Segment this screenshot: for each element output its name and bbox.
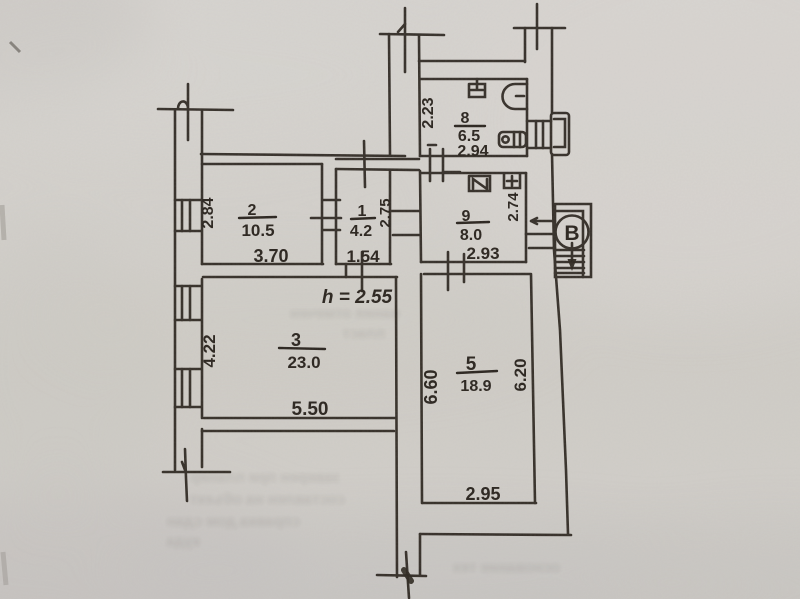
dimension tick above room 1 (364, 141, 365, 187)
corridor right wall upper (551, 28, 554, 113)
room 8 bottom wall (420, 155, 527, 158)
door ticks rooms 9-5 (448, 252, 464, 290)
vestibule lines rooms 1-9 (390, 211, 419, 235)
inner left wall (room 3) (201, 279, 204, 418)
room 9 underline (457, 222, 489, 223)
entrance door outer box (551, 113, 569, 155)
window W3 rungs (175, 369, 201, 407)
bottom survey flag (406, 552, 409, 598)
closet line below room 8 (443, 171, 460, 174)
room 2 underline (239, 217, 276, 218)
bottom flag ink blob (404, 570, 411, 581)
hall bottom wall (420, 534, 571, 535)
bottom-left corner tick (163, 471, 230, 474)
stove zigzag (473, 179, 487, 189)
edge smudges (10, 42, 20, 52)
top shaft tick (380, 34, 444, 35)
inner left wall (room 2) (201, 111, 204, 264)
bottom-left survey flag (182, 449, 187, 501)
room 1 upper outer wall (336, 158, 419, 161)
room 8 underline (455, 125, 485, 127)
room 2 right wall (321, 164, 324, 264)
entrance top tick horizontal (514, 27, 565, 30)
room 1 left wall (335, 169, 338, 264)
lift shaft inner line (555, 211, 583, 277)
toilet bowl circle (502, 136, 508, 142)
room 1 bottom wall (336, 263, 391, 266)
stairwell door tick with arrow (531, 218, 555, 224)
bleed-through ghost text (166, 305, 560, 576)
entrance door hatch rails (527, 121, 551, 148)
room 5 top wall (424, 273, 530, 276)
room 3 bottom wall (204, 417, 395, 420)
sink tap (516, 95, 524, 98)
room 3 right wall / hall left wall (396, 277, 397, 577)
room 1 right wall (389, 171, 392, 264)
bottom exit tick (377, 575, 426, 576)
room 3 top wall (203, 276, 397, 279)
top wall of room 8 block (419, 60, 525, 63)
entrance shaft left line (524, 28, 527, 62)
room 8 right wall (526, 79, 529, 156)
entrance door inner jamb (554, 119, 565, 147)
long wall left of rooms 8-9-5 (419, 36, 422, 503)
top shaft flag (398, 24, 405, 32)
top shaft left line (389, 8, 405, 155)
window W2 rungs (175, 286, 201, 320)
boiler square in room 9 (504, 174, 520, 188)
top-left survey flag (178, 84, 188, 140)
room 8 top wall (420, 78, 527, 81)
room 3 underline (279, 348, 325, 349)
dimension tick below room 1 (346, 252, 362, 291)
vent square in room 8 (469, 79, 485, 97)
lift circle (556, 216, 589, 249)
toilet tank divider (514, 132, 520, 147)
lift shaft box (555, 204, 591, 277)
room 5 underline (457, 371, 497, 373)
stair arrow head (568, 259, 577, 271)
stairwell line 3 (529, 247, 555, 250)
window W1 frame (182, 200, 190, 231)
corridor right wall lower (552, 154, 568, 534)
room 5 bottom wall (423, 502, 536, 505)
room 5 right wall (531, 274, 535, 503)
entrance top tick vertical (536, 4, 539, 49)
sink in room 8 (503, 84, 528, 109)
room 9 right wall (525, 173, 528, 262)
top outer wall (201, 154, 405, 156)
door hatch rooms 2-1 (311, 200, 341, 230)
stray dash in room 8 (428, 144, 436, 147)
toilet in room 8 (499, 132, 526, 147)
window W1 rungs (175, 200, 201, 231)
room 1 underline (351, 218, 375, 219)
boiler plus sign (507, 176, 517, 186)
stair direction arrow (571, 243, 574, 260)
door ticks rooms 8-9 (430, 149, 443, 181)
hall left stub below bottom wall (419, 534, 422, 575)
lower wall below room 3 (202, 430, 394, 433)
room 1 top wall (336, 169, 419, 170)
left outer wall (174, 110, 177, 470)
window W2 frame (182, 286, 190, 320)
stove square in room 9 (469, 176, 490, 191)
room 9 bottom wall (421, 261, 526, 264)
top-left corner tick (158, 109, 233, 110)
inner left wall (below room 3) (201, 429, 204, 467)
room 2 bottom wall (202, 263, 323, 266)
room 9 top wall (421, 172, 526, 175)
stairwell line 2 (526, 233, 555, 236)
window W3 frame (182, 369, 190, 407)
stair treads (555, 250, 584, 273)
room 2 top wall (202, 163, 322, 166)
entrance door hatch bars (536, 121, 543, 148)
